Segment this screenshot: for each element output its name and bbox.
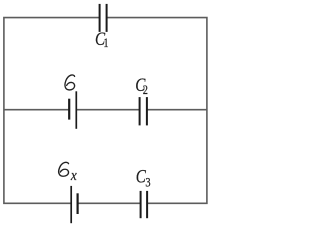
wire: outer loop top-left + left side + bottom-left segment — [4, 18, 100, 204]
wire: bottom side middle segment — [78, 202, 141, 204]
wire: middle branch left segment — [4, 109, 69, 111]
svg-text:x: x — [70, 167, 77, 184]
label C1 — [95, 28, 109, 50]
wire: bottom-right segment + right side + top-right segment — [107, 18, 207, 204]
battery EMF source (script E) — [69, 91, 76, 129]
capacitor C1 — [100, 4, 107, 32]
label script-E EMF — [65, 75, 75, 90]
svg-text:3: 3 — [145, 176, 150, 190]
capacitor C2 — [140, 97, 147, 125]
battery EMF source x (script E sub x) — [71, 186, 77, 223]
capacitor C3 — [141, 191, 148, 218]
svg-text:2: 2 — [143, 83, 148, 97]
svg-text:1: 1 — [103, 36, 108, 50]
label C2 — [135, 74, 148, 97]
label script-E sub x — [59, 162, 69, 176]
wire: middle branch right segment — [147, 109, 207, 111]
wire: middle branch center segment — [76, 109, 139, 111]
label C3 — [136, 166, 151, 190]
